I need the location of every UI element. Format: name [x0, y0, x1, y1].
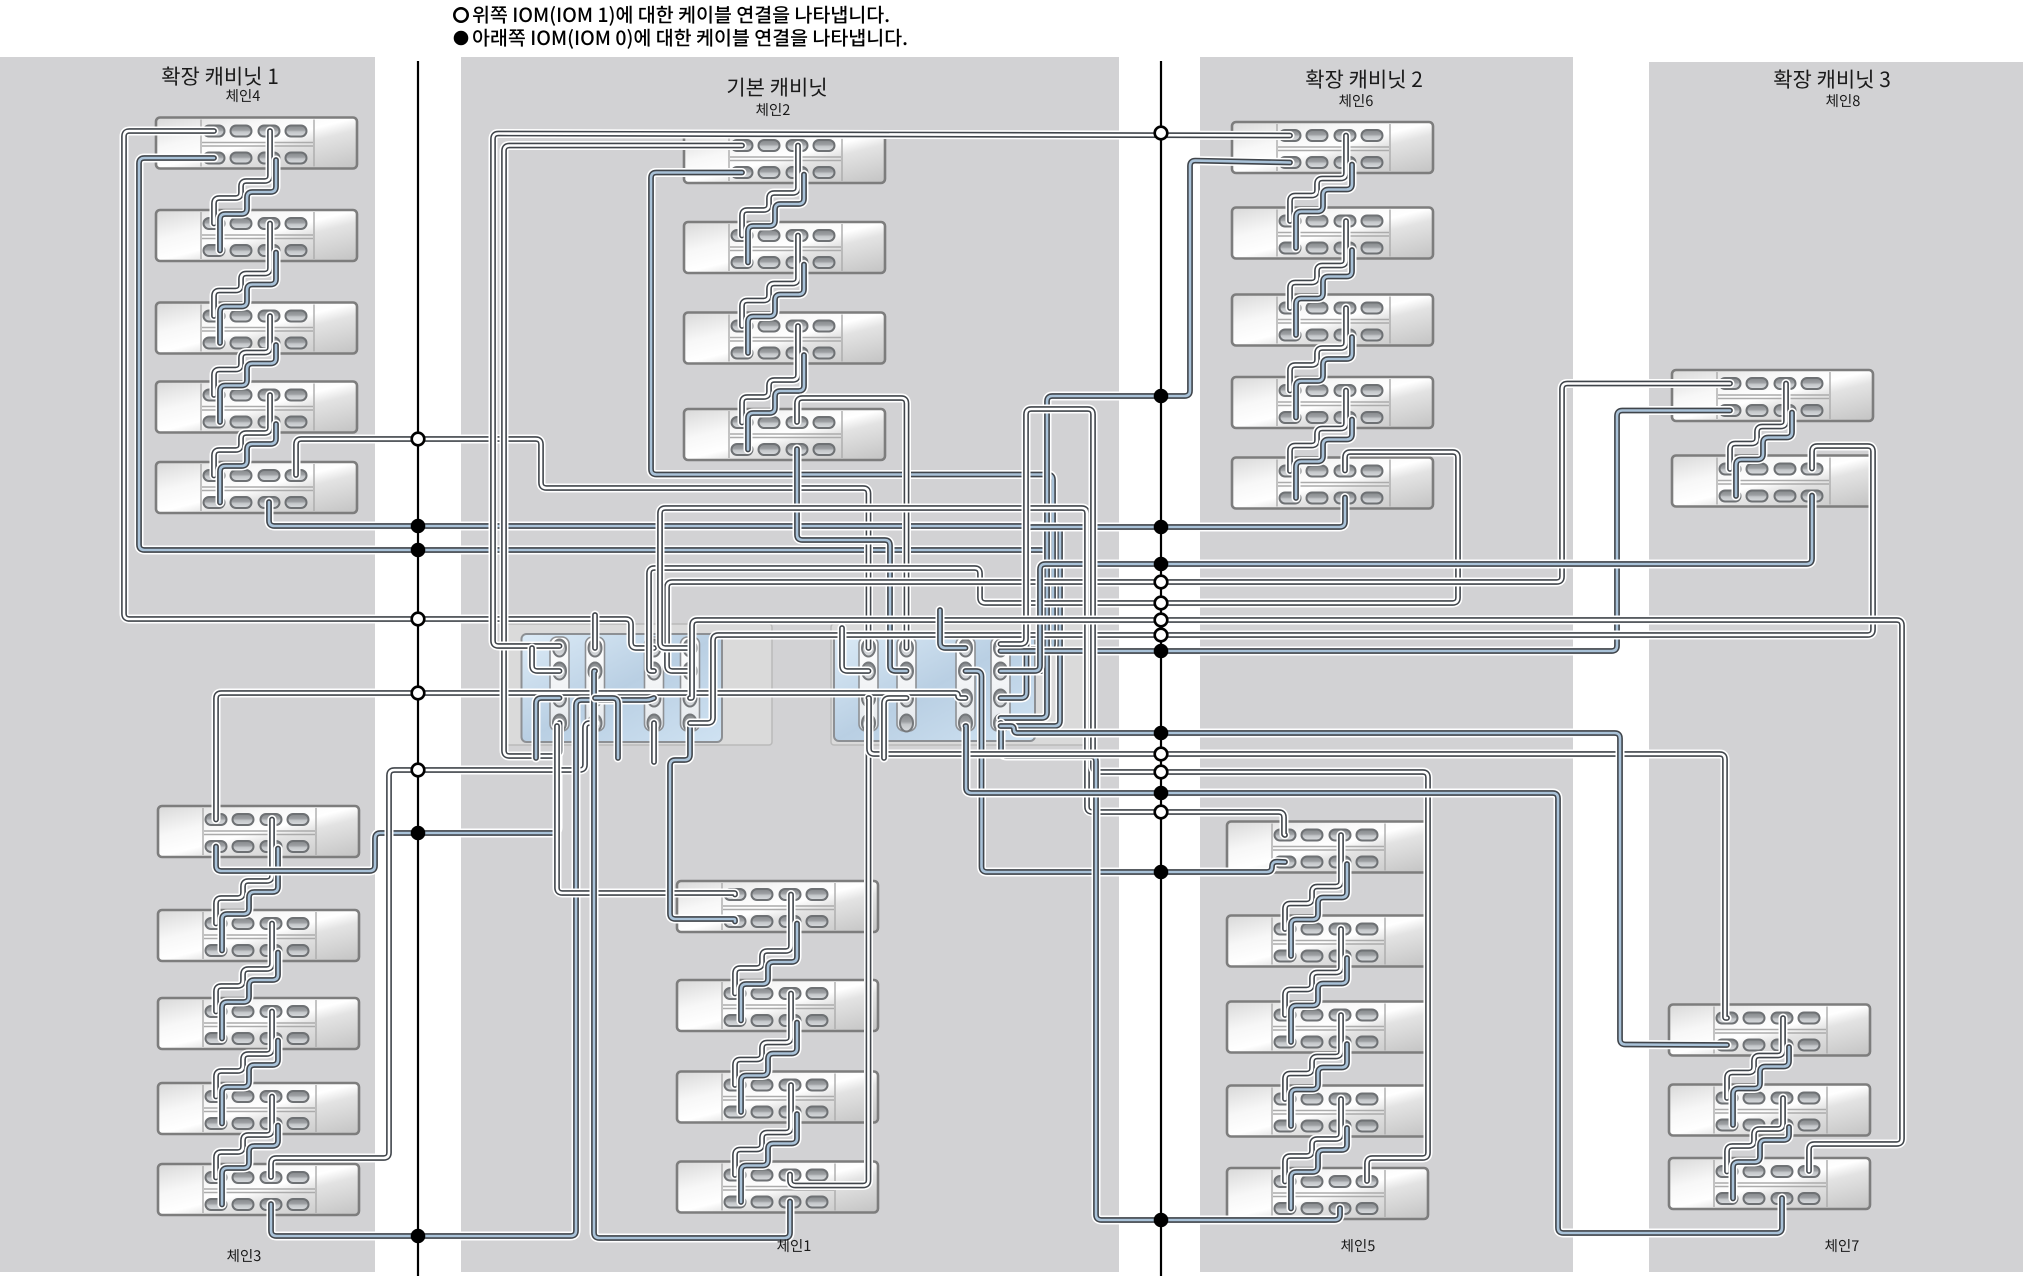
junction bus2 y=527 filled (IOM0)	[1154, 520, 1169, 535]
disk shelf chain3 #5	[158, 1164, 359, 1215]
cable c6 IOM1 shelf3-shelf4 (IOM1 upper)	[1290, 308, 1346, 391]
cable c5 shelf5 IOM0 to controller2 (IOM0 lower)	[1001, 723, 1341, 1220]
disk shelf chain4 #2	[156, 210, 357, 261]
cable stub controller2 strip3 port1 (IOM0 lower)	[940, 610, 966, 648]
cable c1 shelf4 IOM0 to controller1 (IOM0 lower)	[594, 671, 790, 1238]
disk shelf chain6 #4	[1232, 377, 1433, 428]
cable c7 IOM0 shelf1-shelf2 (IOM0 lower)	[1733, 1047, 1789, 1125]
cable c1 shelf4 IOM1 from controller2 (IOM1 upper)	[790, 723, 869, 1186]
label: chain7	[1825, 1239, 1858, 1252]
cable c3 shelf5 IOM1 to controller1 (IOM1 upper)	[271, 723, 595, 1177]
disk shelf chain5 #2	[1227, 916, 1428, 967]
cable c1 IOM0 shelf2-shelf3 (IOM0 lower)	[741, 1023, 797, 1113]
cable c2 shelf4 IOM0 to controller2 (IOM0 lower)	[797, 449, 907, 671]
cable c6 IOM1 shelf2-shelf3 (IOM1 upper)	[1290, 221, 1346, 308]
disk shelf chain7 #3	[1669, 1158, 1870, 1209]
cable c6 IOM0 shelf1-shelf2 (IOM0 lower)	[1296, 165, 1352, 249]
junction bus1 y=439 open (IOM1)	[412, 433, 425, 446]
cable c3 IOM1 shelf2-shelf3 (IOM1 upper)	[216, 924, 272, 1012]
cable c2 IOM1 shelf1-shelf2 (IOM1 upper)	[742, 146, 798, 236]
cable c7 IOM1 shelf2-shelf3 (IOM1 upper)	[1727, 1098, 1783, 1172]
cable c4 IOM1 shelf2-shelf3 (IOM1 upper)	[214, 224, 270, 317]
cable c8 shelf2 IOM1 to controller1 (IOM1 upper)	[690, 446, 1873, 723]
disk shelf chain6 #5	[1232, 458, 1433, 509]
junction bus2 y=635 open (IOM1)	[1155, 629, 1168, 642]
cable c1 IOM1 shelf2-shelf3 (IOM1 upper)	[735, 994, 791, 1086]
cable stub controller1 strip2 port1 (IOM1 upper)	[591, 615, 600, 648]
disk shelf chain4 #3	[156, 303, 357, 354]
cable c8 IOM0 shelf1-shelf2 (IOM0 lower)	[1736, 413, 1792, 497]
cable c6 IOM1 shelf4-shelf5 (IOM1 upper)	[1290, 391, 1346, 472]
label: chain3	[227, 1249, 260, 1262]
cable c5 IOM0 shelf4-shelf5 (IOM0 lower)	[1291, 1128, 1347, 1209]
cable c4 shelf5 IOM1 to controller2 (IOM1 upper)	[296, 439, 869, 648]
junction bus2 y=133 open (IOM1)	[1155, 127, 1168, 140]
disk shelf chain4 #5	[156, 462, 357, 513]
junction bus2 y=872 filled (IOM0)	[1154, 865, 1169, 880]
label: base cabinet title	[728, 78, 826, 97]
legend marker: open circle (IOM1)	[454, 8, 467, 21]
junction bus2 y=733 filled (IOM0)	[1154, 726, 1169, 741]
cable c7 shelf1 IOM0 to controller2 (IOM0 lower)	[1001, 726, 1728, 1045]
bus line 2 (between base cabinet and cabinet 2)	[1160, 61, 1162, 1276]
disk shelf chain5 #4	[1227, 1086, 1428, 1137]
cable c7 shelf3 IOM1 to controller1 (IOM1 upper)	[690, 620, 1902, 1171]
cable c1 IOM0 shelf3-shelf4 (IOM0 lower)	[741, 1114, 797, 1202]
legend text line 2	[473, 29, 906, 49]
cable c6 IOM0 shelf2-shelf3 (IOM0 lower)	[1296, 250, 1352, 335]
disk shelf chain2 #4	[684, 409, 885, 460]
bus line 1 (between cabinet 1 and base cabinet)	[417, 61, 419, 1276]
cable c8 shelf2 IOM0 to controller2 (IOM0 lower)	[1001, 496, 1813, 672]
cable c4 IOM0 shelf1-shelf2 (IOM0 lower)	[220, 160, 276, 251]
cable c2 IOM1 shelf2-shelf3 (IOM1 upper)	[742, 236, 798, 327]
junction bus1 y=619 open (IOM1)	[412, 613, 425, 626]
cable stub controller2 strip2 port3 (IOM1 upper)	[884, 698, 907, 758]
cable c5 IOM0 shelf3-shelf4 (IOM0 lower)	[1291, 1044, 1347, 1126]
disk shelf chain1 #1	[677, 881, 878, 932]
controller 2	[834, 632, 1035, 741]
junction bus2 y=754 open (IOM1)	[1155, 748, 1168, 761]
cable c4 IOM0 shelf3-shelf4 (IOM0 lower)	[220, 345, 276, 422]
disk shelf chain2 #2	[684, 222, 885, 273]
cable c1 IOM0 shelf1-shelf2 (IOM0 lower)	[741, 924, 797, 1021]
junction bus2 y=651 filled (IOM0)	[1154, 644, 1169, 659]
cabinet panel: base cabinet	[461, 57, 1119, 1272]
cable stub controller1 strip3 port4 (IOM1 upper)	[650, 723, 659, 762]
disk shelf chain5 #1	[1227, 822, 1428, 873]
cable c6 shelf1 IOM0 to controller2 (IOM0 lower)	[1001, 161, 1291, 718]
cable c8 IOM1 shelf1-shelf2 (IOM1 upper)	[1730, 384, 1786, 470]
cable c3 IOM1 shelf4-shelf5 (IOM1 upper)	[216, 1097, 272, 1178]
disk shelf chain8 #1	[1672, 370, 1873, 421]
disk shelf chain7 #2	[1669, 1085, 1870, 1136]
disk shelf chain8 #2	[1672, 456, 1873, 507]
legend text line 1	[473, 6, 889, 26]
cable c1 IOM1 shelf1-shelf2 (IOM1 upper)	[735, 895, 791, 994]
cable c1 IOM1 shelf3-shelf4 (IOM1 upper)	[735, 1085, 791, 1175]
cable c4 IOM0 shelf4-shelf5 (IOM0 lower)	[220, 424, 276, 503]
cable c5 IOM0 shelf2-shelf3 (IOM0 lower)	[1291, 958, 1347, 1042]
junction bus1 y=526 filled (IOM0)	[411, 519, 426, 534]
cabinet panel: expansion cabinet 2	[1200, 57, 1573, 1272]
cable c6 shelf5 IOM1 to controller1 (IOM1 upper)	[649, 452, 1458, 671]
label: expansion cabinet 3 title	[1774, 69, 1890, 88]
label: chain8	[1826, 94, 1859, 107]
disk shelf chain6 #2	[1232, 208, 1433, 259]
cable c2 IOM0 shelf2-shelf3 (IOM0 lower)	[748, 265, 804, 354]
cable c2 shelf1 IOM0 to controller2 (IOM0 lower)	[651, 173, 1053, 650]
controller chassis 1	[504, 624, 772, 745]
cable c4 shelf1 IOM1 to controller1 (IOM1 upper)	[124, 131, 654, 648]
cable c5 shelf1 IOM1 to controller1 (IOM1 upper)	[660, 508, 1285, 835]
junction bus2 y=812 open (IOM1)	[1155, 806, 1168, 819]
junction bus2 y=793 filled (IOM0)	[1154, 786, 1169, 801]
legend marker: filled circle (IOM0)	[454, 31, 469, 46]
cable c2 IOM0 shelf3-shelf4 (IOM0 lower)	[748, 355, 804, 450]
cable c3 IOM1 shelf1-shelf2 (IOM1 upper)	[216, 820, 272, 924]
disk shelf chain4 #4	[156, 382, 357, 433]
cable c6 shelf1 IOM1 to controller1 (IOM1 upper)	[493, 134, 1290, 647]
disk shelf chain4 #1	[156, 118, 357, 169]
disk shelf chain3 #1	[158, 806, 359, 857]
cable c4 IOM1 shelf1-shelf2 (IOM1 upper)	[214, 131, 270, 224]
cable c1 shelf1 IOM0 from controller1 (IOM0 lower)	[670, 723, 735, 922]
cable c3 IOM0 shelf4-shelf5 (IOM0 lower)	[222, 1126, 278, 1205]
disk shelf chain3 #2	[158, 910, 359, 961]
label: expansion cabinet 1 title	[162, 66, 277, 85]
cable c6 IOM1 shelf1-shelf2 (IOM1 upper)	[1290, 136, 1346, 222]
disk shelf chain1 #4	[677, 1162, 878, 1213]
cable c8 shelf1 IOM1 to controller1 (IOM1 upper)	[667, 384, 1730, 672]
cable c5 IOM0 shelf1-shelf2 (IOM0 lower)	[1291, 864, 1347, 956]
disk shelf chain5 #5	[1227, 1168, 1428, 1219]
label: chain6	[1339, 94, 1372, 107]
disk shelf chain2 #3	[684, 313, 885, 364]
controller chassis 2	[831, 624, 1088, 745]
cable c1 shelf1 IOM1 from controller1 (IOM1 upper)	[557, 726, 735, 895]
disk shelf chain2 #1	[684, 132, 885, 183]
junction bus1 y=770 open (IOM1)	[412, 764, 425, 777]
label: chain1	[777, 1239, 810, 1252]
label: chain2	[756, 103, 789, 116]
cable c5 IOM1 shelf1-shelf2 (IOM1 upper)	[1285, 835, 1341, 929]
junction bus1 y=1236 filled (IOM0)	[411, 1229, 426, 1244]
cable c4 IOM0 shelf2-shelf3 (IOM0 lower)	[220, 253, 276, 344]
disk shelf chain1 #2	[677, 980, 878, 1031]
cable stub controller1 strip2 port3 (IOM0 lower)	[595, 698, 618, 758]
cable stub controller2 strip1 port2 (IOM1 upper)	[842, 628, 869, 671]
disk shelf chain5 #3	[1227, 1002, 1428, 1053]
junction bus1 y=833 filled (IOM0)	[411, 826, 426, 841]
label: chain4	[226, 89, 260, 102]
disk shelf chain1 #3	[677, 1072, 878, 1123]
disk shelf chain6 #1	[1232, 122, 1433, 173]
junction bus1 y=693 open (IOM1)	[412, 687, 425, 700]
junction bus2 y=1220 filled (IOM0)	[1154, 1213, 1169, 1228]
junction bus2 y=582 open (IOM1)	[1155, 576, 1168, 589]
junction bus2 y=564 filled (IOM0)	[1154, 557, 1169, 572]
disk shelf chain6 #3	[1232, 295, 1433, 346]
cable c4 IOM1 shelf3-shelf4 (IOM1 upper)	[214, 316, 270, 395]
cable c3 IOM0 shelf2-shelf3 (IOM0 lower)	[222, 953, 278, 1039]
cable stub controller1 strip1 port3 (IOM0 lower)	[536, 698, 560, 758]
cable c3 IOM0 shelf1-shelf2 (IOM0 lower)	[222, 849, 278, 951]
cable c7 shelf3 IOM0 to controller2 (IOM0 lower)	[966, 726, 1783, 1233]
junction bus2 y=603 open (IOM1)	[1155, 597, 1168, 610]
cable c5 IOM1 shelf2-shelf3 (IOM1 upper)	[1285, 929, 1341, 1015]
cable c2 IOM0 shelf1-shelf2 (IOM0 lower)	[748, 175, 804, 263]
cable c4 shelf1 IOM0 to controller2 (IOM0 lower)	[139, 158, 1047, 671]
cabinet panel: expansion cabinet 3	[1649, 62, 2023, 1272]
cable c4 IOM1 shelf4-shelf5 (IOM1 upper)	[214, 395, 270, 476]
disk shelf chain7 #1	[1669, 1005, 1870, 1056]
junction bus2 y=620 open (IOM1)	[1155, 614, 1168, 627]
junction bus1 y=550 filled (IOM0)	[411, 543, 426, 558]
disk shelf chain3 #4	[158, 1083, 359, 1134]
cable c5 shelf5 IOM1 to controller2 (IOM1 upper)	[1001, 409, 1429, 1181]
cable c3 IOM1 shelf3-shelf4 (IOM1 upper)	[216, 1012, 272, 1097]
cable c3 shelf5 IOM0 to controller1 (IOM0 lower)	[271, 698, 654, 1236]
junction bus2 y=772 open (IOM1)	[1155, 766, 1168, 779]
cable c5 shelf1 IOM0 to controller2 (IOM0 lower)	[966, 671, 1286, 872]
cable c7 IOM1 shelf1-shelf2 (IOM1 upper)	[1727, 1018, 1783, 1098]
cable c3 shelf1 IOM0 to controller1 (IOM0 lower)	[216, 723, 560, 871]
disk shelf chain3 #3	[158, 998, 359, 1049]
cable c4 shelf5 IOM0 to controller2 (IOM0 lower)	[269, 502, 1060, 726]
cable c7 shelf1 IOM1 to controller2 (IOM1 upper)	[869, 698, 1728, 1018]
cable c3 IOM0 shelf3-shelf4 (IOM0 lower)	[222, 1041, 278, 1124]
junction bus2 y=396 filled (IOM0)	[1154, 389, 1169, 404]
cabinet panel: expansion cabinet 1	[0, 57, 375, 1272]
cable c2 shelf1 IOM1 to controller1 (IOM1 upper)	[504, 146, 742, 757]
cable c2 IOM1 shelf3-shelf4 (IOM1 upper)	[742, 326, 798, 423]
controller 1	[522, 634, 723, 742]
cable c5 IOM1 shelf4-shelf5 (IOM1 upper)	[1285, 1099, 1341, 1182]
cable c2 shelf4 IOM1 to controller2 (IOM1 upper)	[797, 398, 907, 648]
label: chain5	[1341, 1239, 1374, 1252]
cable stub controller1 strip1 port2 (IOM1 upper)	[532, 648, 560, 671]
cable c7 IOM0 shelf2-shelf3 (IOM0 lower)	[1733, 1127, 1789, 1199]
label: expansion cabinet 2 title	[1306, 69, 1422, 88]
cable c6 IOM0 shelf4-shelf5 (IOM0 lower)	[1296, 420, 1352, 499]
cable c6 shelf5 IOM0 to controller2 (IOM0 lower)	[1001, 498, 1346, 699]
cable c6 IOM0 shelf3-shelf4 (IOM0 lower)	[1296, 337, 1352, 418]
cable c3 shelf1 IOM1 to controller2 (IOM1 upper)	[216, 693, 966, 820]
cable c5 IOM1 shelf3-shelf4 (IOM1 upper)	[1285, 1015, 1341, 1099]
cable c8 shelf1 IOM0 to controller2 (IOM0 lower)	[1001, 411, 1731, 652]
